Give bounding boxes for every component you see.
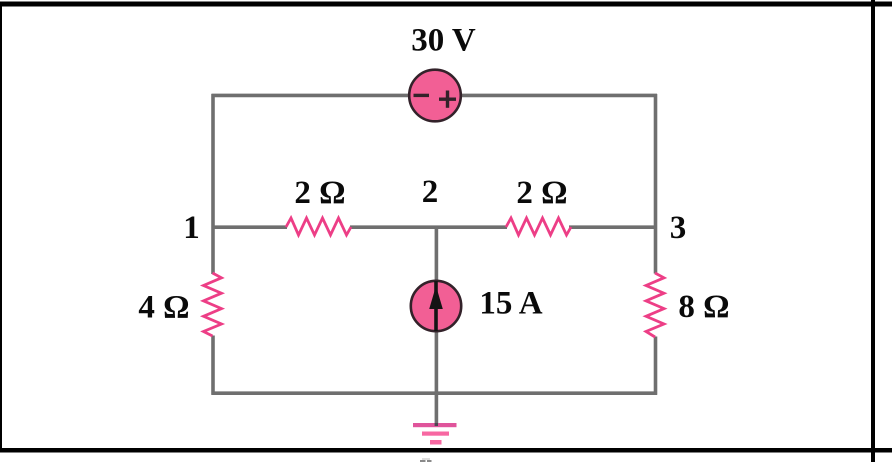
current source I 15A bbox=[411, 281, 461, 331]
resistor 4ohm bbox=[204, 273, 222, 336]
svg-text:30 V: 30 V bbox=[411, 23, 476, 59]
svg-text:2 Ω: 2 Ω bbox=[516, 175, 567, 211]
wire middle R-node2-R bbox=[350, 225, 507, 229]
ground bbox=[413, 423, 457, 445]
wire stub over ground bar bbox=[435, 423, 438, 426]
wire right lower bbox=[654, 337, 658, 395]
svg-text:8 Ω: 8 Ω bbox=[678, 289, 729, 325]
resistor 2ohm left bbox=[286, 218, 351, 235]
voltage source V 30V bbox=[409, 70, 461, 122]
svg-text:3: 3 bbox=[670, 210, 687, 246]
svg-text:2: 2 bbox=[422, 174, 439, 210]
wire top bbox=[212, 94, 658, 98]
wire middle R-node3 bbox=[569, 225, 657, 229]
wire middle node1-R bbox=[212, 225, 288, 229]
wire center vertical bbox=[435, 226, 439, 424]
cut-off page mark at bottom bbox=[420, 460, 426, 462]
svg-text:4 Ω: 4 Ω bbox=[138, 290, 189, 326]
svg-text:15 A: 15 A bbox=[479, 286, 542, 322]
wire right upper bbox=[654, 94, 658, 274]
svg-text:1: 1 bbox=[183, 210, 200, 246]
wire left lower bbox=[211, 336, 215, 395]
resistor 8ohm bbox=[646, 273, 664, 337]
svg-text:2 Ω: 2 Ω bbox=[294, 175, 345, 211]
resistor 2ohm right bbox=[506, 218, 571, 235]
wire bottom bbox=[212, 391, 658, 395]
wire left upper bbox=[211, 94, 215, 274]
